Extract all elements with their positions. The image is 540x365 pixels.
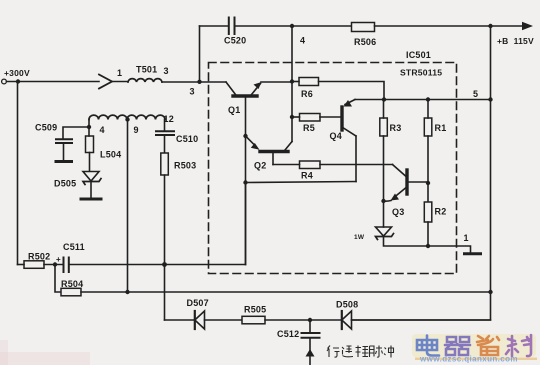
- transistor Q2 emitter diagonal with arrowhead: [246, 136, 255, 145]
- capacitor C510: [156, 131, 174, 135]
- glyph dian blue: [417, 336, 439, 356]
- wire Q1 emitter to net4: [261, 81, 292, 83]
- wire R1 bottom to Q3 base node: [427, 136, 429, 202]
- node junction dot pin4 top: [290, 24, 294, 28]
- watermark url small text: [415, 358, 537, 361]
- wire winding right end to C510: [164, 120, 166, 131]
- glyph zi orange: [477, 336, 499, 355]
- wire C511 to IC feedback corner: [70, 264, 246, 266]
- resistor R503: [161, 153, 169, 175]
- node junction dot net5/R1: [426, 97, 430, 101]
- capacitor C511 polarized: [64, 258, 69, 273]
- wire top rail right segment: [375, 25, 530, 27]
- svg-text:1: 1: [464, 233, 469, 243]
- arrow current direction on primary line: [99, 75, 112, 89]
- node junction dot net5/right rail: [488, 97, 492, 101]
- svg-text:Q2: Q2: [254, 161, 266, 171]
- wire Q1 base vertical: [245, 98, 247, 265]
- svg-text:5: 5: [473, 89, 478, 99]
- svg-text:R5: R5: [303, 123, 315, 133]
- transistor Q1 collector diagonal: [226, 82, 236, 95]
- wire base drive horizontal: [246, 182, 357, 183]
- wire R6 to corner down to net5: [319, 82, 385, 100]
- svg-text:R6: R6: [301, 89, 313, 99]
- svg-text:C509: C509: [35, 123, 57, 133]
- zener cathode bar with wings: [376, 234, 394, 240]
- wire R1 top: [427, 100, 429, 119]
- glyph ni: [342, 346, 353, 357]
- wire C512 top: [309, 320, 311, 333]
- wire Q3 emitter stub: [384, 200, 392, 203]
- wire top rail mid segment: [236, 25, 352, 27]
- svg-text:1: 1: [117, 68, 122, 78]
- svg-text:Q1: Q1: [228, 105, 240, 115]
- node junction dot base drive tap: [243, 180, 247, 184]
- svg-text:3: 3: [164, 66, 169, 76]
- IC501 dashed box: [209, 63, 457, 274]
- svg-text:STR50115: STR50115: [400, 68, 442, 78]
- svg-text:R3: R3: [390, 123, 402, 133]
- node junction dot tap9: [125, 117, 129, 121]
- svg-text:Q3: Q3: [392, 207, 404, 217]
- svg-text:+: +: [56, 255, 61, 264]
- glyph chong: [384, 346, 394, 358]
- transistor Q4 emitter diagonal: [345, 100, 355, 105]
- ground D505: [81, 198, 101, 201]
- svg-text:C512: C512: [277, 329, 299, 339]
- watermark big colored characters: [412, 334, 536, 357]
- wire input line to arrow: [7, 81, 100, 83]
- wire left rail: [17, 82, 19, 265]
- node junction dot tap4: [87, 125, 91, 129]
- wire R3 bottom to Q3 emitter node: [383, 136, 385, 227]
- zener diode internal: [376, 227, 392, 236]
- wire feedback corner up: [245, 183, 247, 265]
- wire +B output arrowhead: [522, 22, 533, 30]
- wire R504 branch down: [55, 265, 61, 293]
- capacitor C520: [229, 18, 235, 35]
- transistor Q1 base bar: [233, 94, 257, 97]
- wire net4 to R6: [292, 81, 299, 83]
- wire bottom pulse line corner: [165, 319, 195, 321]
- wire R2 bottom: [427, 222, 429, 246]
- svg-text:L504: L504: [100, 150, 121, 160]
- node junction dot R502/C511/R504: [53, 262, 57, 266]
- node +300V input terminal: [2, 79, 7, 84]
- wire winding left end down: [88, 120, 90, 128]
- zener diode D505: [83, 172, 99, 182]
- diode D508: [342, 311, 352, 329]
- wire pin1 to ground: [428, 246, 471, 253]
- transistor Q1 emitter arrowhead: [254, 82, 262, 89]
- svg-text:C511: C511: [63, 242, 85, 252]
- resistor R2: [424, 202, 432, 222]
- glyph liao violet: [506, 335, 531, 356]
- svg-text:12: 12: [164, 114, 174, 124]
- wire C512 bottom with pulse input arrow: [309, 339, 311, 365]
- wire Q2 base to R4: [273, 164, 300, 166]
- wire vertical pin3 to top rail: [199, 26, 201, 82]
- wire R5 right to Q4 base: [320, 116, 341, 118]
- transistor Q3 emitter diagonal: [394, 188, 406, 198]
- ground pin1: [465, 252, 481, 255]
- wire net5 horizontal: [355, 99, 491, 101]
- node junction dot R503/feedback wire: [162, 262, 167, 267]
- transistor Q3 base wire: [409, 181, 429, 183]
- diode D508 cathode bar: [341, 311, 343, 329]
- svg-text:C510: C510: [176, 134, 198, 144]
- svg-text:D507: D507: [187, 298, 209, 308]
- wire R504 to tap9 and right rail: [81, 291, 491, 293]
- capacitor C509: [56, 139, 72, 143]
- text 行逆程脉冲 pseudo-glyphs: [327, 346, 394, 358]
- svg-text:R503: R503: [174, 161, 196, 171]
- wire Q2 collector to net4: [291, 117, 293, 142]
- wire right rail: [352, 26, 491, 320]
- node junction dot net5/R3: [382, 97, 386, 101]
- wire arrow to coil: [112, 81, 128, 83]
- diode D507 cathode bar: [194, 311, 196, 329]
- wire R505 to C512 node: [265, 319, 342, 321]
- wire R5 left: [292, 116, 300, 118]
- wire Q4 collector down: [355, 136, 357, 182]
- svg-text:D505: D505: [54, 179, 76, 189]
- node pin3 junction dot: [197, 80, 201, 84]
- glyph cheng: [356, 346, 369, 358]
- ground C509 end bar: [56, 160, 72, 163]
- node junction dot tap9/R504: [125, 290, 129, 294]
- svg-text:R505: R505: [244, 305, 266, 315]
- node junction dot net4/Q1 emitter/R6: [290, 79, 294, 83]
- svg-text:T501: T501: [136, 65, 157, 75]
- resistor R505: [242, 316, 265, 324]
- transistor Q3 emitter arrowhead: [391, 194, 400, 201]
- arrow pulse input arrowhead: [306, 349, 315, 357]
- diode D507: [195, 311, 205, 329]
- transistor Q3 collector diagonal: [393, 165, 406, 177]
- resistor R5: [300, 114, 321, 122]
- resistor R504: [61, 288, 81, 296]
- resistor R506: [352, 23, 375, 32]
- wire R502 to C511 node: [44, 264, 63, 266]
- transformer T501 primary winding 1-3: [128, 79, 162, 82]
- wire R3 top: [383, 100, 385, 119]
- wire R4 to Q3 collector: [320, 164, 393, 166]
- svg-text:R504: R504: [61, 279, 83, 289]
- svg-text:R502: R502: [28, 252, 50, 262]
- svg-text:D508: D508: [336, 300, 358, 310]
- wire center tap 9 down: [127, 120, 129, 293]
- glyph mai: [370, 346, 383, 358]
- wire left rail corner to R502: [18, 264, 25, 266]
- transistor Q4 emitter arrowhead: [344, 100, 353, 107]
- node junction dot Q2 emitter tap: [243, 134, 247, 138]
- svg-text:R1: R1: [435, 123, 447, 133]
- resistor R502: [24, 261, 44, 269]
- svg-text:1W: 1W: [354, 234, 365, 241]
- transistor Q2 base bar: [260, 150, 288, 153]
- transistor Q2 collector diagonal: [285, 142, 292, 151]
- svg-text:R2: R2: [435, 207, 447, 217]
- svg-text:4: 4: [300, 36, 305, 46]
- wire zener to R2 node: [384, 237, 429, 247]
- wire L504 to D505: [89, 153, 91, 172]
- wire C510 to R503: [164, 136, 166, 153]
- svg-text:Q4: Q4: [330, 131, 342, 141]
- wire C509 bottom stub: [63, 144, 65, 161]
- wire D508 to right rail: [352, 319, 491, 321]
- resistor R4: [300, 161, 321, 169]
- node junction dot zener/R2: [426, 244, 430, 248]
- wire R503 down to bottom corner: [164, 175, 166, 320]
- transistor Q1 emitter diagonal: [252, 84, 261, 95]
- svg-text:4: 4: [100, 125, 105, 135]
- node junction dot Q3 base: [426, 181, 430, 185]
- svg-text:3: 3: [190, 87, 195, 97]
- wire tap4 to C509: [63, 127, 89, 139]
- glyph qi purple: [445, 337, 470, 355]
- capacitor C512: [302, 333, 320, 338]
- wire D507 to R505: [205, 319, 243, 321]
- svg-text:IC501: IC501: [406, 50, 431, 60]
- resistor R1: [424, 118, 432, 136]
- wire Q2 base down: [272, 154, 274, 165]
- svg-text:www.dzsc.qianxun.com: www.dzsc.qianxun.com: [419, 355, 518, 364]
- svg-text:9: 9: [134, 125, 139, 135]
- wire D505 to ground: [90, 182, 92, 198]
- wire tap4 to L504: [88, 127, 90, 136]
- transistor Q3 base bar: [405, 170, 408, 194]
- resistor R6: [299, 78, 319, 86]
- svg-text:+B 115V: +B 115V: [497, 36, 534, 46]
- svg-text:C520: C520: [224, 36, 246, 46]
- svg-text:R4: R4: [301, 171, 313, 181]
- node junction dot left rail: [16, 79, 20, 83]
- node junction dot R5 left: [290, 115, 294, 119]
- wire vertical net4 x292: [291, 26, 293, 117]
- wire top rail left segment: [200, 25, 228, 27]
- node junction dot Q3 emitter: [381, 199, 385, 203]
- node junction dot C512: [308, 318, 312, 322]
- transistor Q4 collector diagonal: [344, 128, 357, 136]
- transformer T501 secondary winding 4-9-12: [89, 115, 165, 119]
- transistor Q2 emitter arrowhead: [251, 143, 260, 150]
- svg-text:+300V: +300V: [4, 68, 30, 78]
- node junction dot top right rail: [488, 24, 492, 28]
- zener D505 cathode bar with wings: [83, 179, 101, 185]
- inductor L504: [86, 136, 94, 153]
- resistor R3: [380, 118, 388, 136]
- glyph xing: [327, 346, 340, 358]
- wire coil to node 3: [162, 81, 226, 83]
- transistor Q4 base bar: [340, 107, 343, 130]
- svg-text:R506: R506: [354, 37, 376, 47]
- node junction dot right rail feedback: [488, 290, 492, 294]
